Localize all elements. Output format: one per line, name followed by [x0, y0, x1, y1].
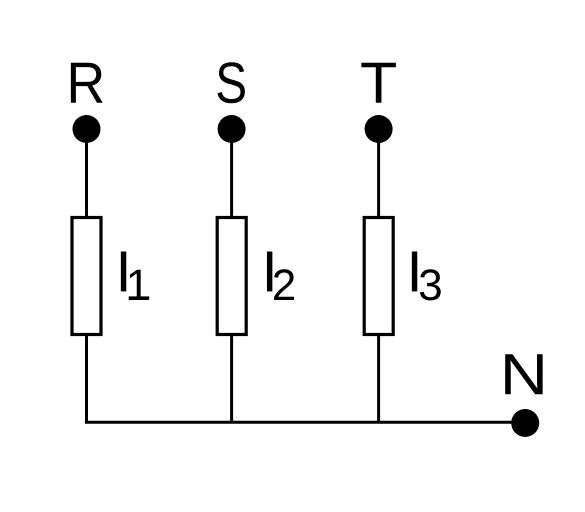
foot bar of subscript 1 — [129, 296, 150, 299]
terminal dot T — [365, 115, 393, 143]
wire T top — [377, 129, 380, 218]
terminal dot S — [218, 115, 246, 143]
wire T bottom — [377, 334, 380, 422]
label I2 main — [267, 251, 272, 291]
node N label — [505, 354, 542, 394]
wire R top — [85, 129, 88, 218]
node R label — [71, 63, 103, 103]
label I3 subscript — [420, 269, 441, 300]
wire S top — [230, 129, 233, 218]
label I3 main — [412, 251, 417, 291]
node T label — [361, 63, 395, 103]
resistor I3 — [364, 218, 393, 335]
terminal dot N — [511, 409, 539, 437]
wire S bottom — [230, 334, 233, 422]
resistor I2 — [217, 218, 246, 335]
label I1 subscript — [129, 270, 148, 300]
bus wire bottom (neutral) — [85, 421, 525, 424]
resistor I1 — [72, 218, 101, 335]
label I2 subscript — [274, 269, 294, 300]
terminal dot R — [73, 115, 101, 143]
node S label — [217, 62, 244, 103]
label I1 main — [121, 251, 126, 291]
wire R bottom — [85, 334, 88, 422]
